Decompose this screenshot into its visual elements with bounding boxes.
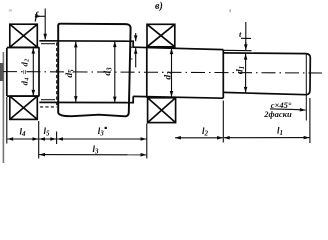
svg-text:2фаски: 2фаски — [263, 109, 292, 119]
svg-text:d4 = d2: d4 = d2 — [19, 58, 30, 85]
svg-text:t: t — [239, 29, 242, 39]
svg-text:l3: l3 — [92, 144, 99, 156]
svg-text:d2: d2 — [163, 71, 174, 80]
svg-text:l4: l4 — [19, 127, 26, 139]
svg-text:r: r — [125, 57, 134, 60]
svg-text:в): в) — [155, 1, 163, 12]
svg-text:l1: l1 — [277, 126, 283, 138]
svg-text:l2: l2 — [202, 126, 209, 138]
svg-text:l3: l3 — [98, 126, 105, 138]
svg-text:d5: d5 — [65, 69, 76, 78]
svg-text:d3: d3 — [103, 67, 114, 76]
svg-text:d1: d1 — [236, 66, 247, 74]
svg-text:l5: l5 — [43, 126, 50, 138]
